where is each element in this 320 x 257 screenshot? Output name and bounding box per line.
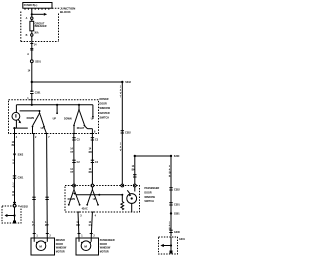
splice node S318 bbox=[31, 81, 33, 83]
svg-text:DRIVER: DRIVER bbox=[56, 239, 65, 242]
connector bump above breaker bbox=[31, 17, 33, 19]
gauge label pass ground bbox=[132, 165, 136, 171]
svg-text:DOOR: DOOR bbox=[56, 243, 63, 246]
circuit breaker body bbox=[30, 19, 34, 30]
svg-text:DOOR: DOOR bbox=[100, 103, 107, 106]
switch bus wire bbox=[16, 105, 93, 116]
connector label C302 bbox=[125, 131, 131, 134]
connector ticks right ground 1 bbox=[169, 188, 172, 190]
junction block exit pin label bbox=[34, 44, 37, 47]
connector C301 ticks bbox=[30, 91, 33, 93]
driver motor box bbox=[31, 238, 55, 255]
pin tick at block exit bbox=[30, 43, 33, 45]
junction block label bbox=[60, 7, 75, 15]
pass switch bottom pins bbox=[77, 211, 95, 213]
ground node right bbox=[170, 155, 172, 157]
passenger motor symbol bbox=[79, 238, 91, 251]
driver master switch dashed box bbox=[9, 100, 99, 134]
gauge label right ground bbox=[169, 165, 171, 178]
breaker ground stub bbox=[14, 120, 27, 128]
svg-text:GY: GY bbox=[89, 224, 93, 227]
connector ticks right ground 3 bbox=[169, 230, 172, 232]
svg-text:30A: 30A bbox=[34, 32, 39, 35]
node label S300 bbox=[174, 155, 180, 158]
gauge label right ground 2 bbox=[169, 222, 171, 231]
splice S302 label bbox=[18, 153, 24, 156]
inline connector label bbox=[35, 61, 41, 64]
ground box label right bbox=[179, 238, 186, 241]
svg-text:RD: RD bbox=[89, 151, 93, 154]
svg-text:WINDOW: WINDOW bbox=[56, 247, 67, 250]
pass motor pin labels bbox=[81, 234, 95, 237]
svg-text:UP: UP bbox=[53, 118, 57, 121]
svg-text:VT: VT bbox=[70, 171, 74, 174]
svg-text:DOOR: DOOR bbox=[100, 243, 107, 246]
svg-text:WINDOW: WINDOW bbox=[100, 107, 111, 110]
svg-text:B: B bbox=[26, 34, 28, 37]
lamp resistor element bbox=[121, 195, 124, 210]
motor wire labels bbox=[32, 221, 49, 227]
connector label right 2 bbox=[174, 203, 180, 206]
svg-text:C302: C302 bbox=[174, 188, 180, 191]
bus node feed bbox=[31, 104, 33, 106]
wire gauge label 2 on S318 drop bbox=[120, 143, 122, 153]
pin label 4 bbox=[16, 136, 18, 139]
ground node passenger bbox=[134, 155, 136, 157]
svg-text:SWITCH: SWITCH bbox=[144, 200, 154, 203]
internal link wire bbox=[76, 194, 123, 196]
svg-text:DRIVER: DRIVER bbox=[100, 98, 109, 101]
passenger motor box bbox=[76, 238, 99, 255]
breaker output wire bbox=[20, 110, 40, 112]
svg-text:BK: BK bbox=[12, 144, 16, 147]
svg-text:MASTER: MASTER bbox=[100, 112, 110, 115]
pass switch right rocker bbox=[86, 187, 99, 206]
ground strap bbox=[5, 207, 16, 221]
connector labels pass mid bbox=[77, 161, 99, 164]
pin digits bbox=[35, 130, 96, 139]
driver motor symbol bbox=[34, 238, 47, 251]
wire below splice bbox=[14, 154, 16, 204]
connector ticks pass wires mid bbox=[72, 160, 94, 162]
pin label B bbox=[26, 34, 28, 37]
branch wire to passenger side bbox=[32, 81, 123, 83]
svg-text:BR: BR bbox=[76, 224, 80, 227]
pass motor wire labels bbox=[76, 221, 92, 227]
passenger motor label bbox=[100, 239, 115, 253]
pass wire gauge labels 2 bbox=[70, 168, 92, 174]
driver motor label bbox=[56, 239, 67, 253]
pin label above ground box bbox=[12, 183, 14, 198]
connector ticks pass ground bbox=[133, 175, 136, 177]
driver motor wire up bbox=[46, 134, 49, 239]
pass motor pin ticks bbox=[78, 233, 93, 235]
svg-text:K: K bbox=[12, 194, 14, 197]
wire gauge label S318 drop bbox=[120, 86, 122, 99]
ground branch horizontal bbox=[135, 155, 171, 157]
motor pin ticks bbox=[33, 233, 49, 235]
label DOWN 2 bbox=[64, 118, 72, 121]
svg-text:SWITCH: SWITCH bbox=[100, 116, 110, 119]
connector C301 ticks on ground wire bbox=[13, 176, 16, 178]
connector ticks motor wires bbox=[32, 197, 49, 199]
contact on bus end bbox=[92, 116, 94, 118]
pass switch left rocker bbox=[68, 187, 81, 206]
svg-text:A: A bbox=[27, 53, 29, 56]
pass motor wire up bbox=[91, 212, 92, 238]
connector ticks on S318 drop bbox=[121, 131, 124, 133]
connector C301 label bbox=[35, 92, 41, 95]
driver motor M bbox=[39, 244, 42, 248]
svg-text:BREAKER: BREAKER bbox=[35, 25, 47, 28]
splice node right ground bbox=[170, 212, 172, 214]
wire gauge label 2 bbox=[12, 159, 14, 165]
svg-text:DOWN: DOWN bbox=[27, 117, 35, 120]
ground terminal bbox=[13, 221, 16, 224]
wire below junction block bbox=[31, 36, 33, 60]
svg-text:FUSED B(+): FUSED B(+) bbox=[24, 4, 38, 7]
svg-text:UP: UP bbox=[93, 198, 97, 201]
pass motor wire down bbox=[78, 212, 79, 238]
svg-text:WT: WT bbox=[45, 224, 49, 227]
splice S302 bbox=[13, 153, 15, 155]
label UP pass bbox=[93, 198, 97, 201]
ground wire from switch bbox=[14, 128, 16, 153]
label center pass bbox=[82, 208, 88, 211]
svg-text:S302: S302 bbox=[18, 153, 24, 156]
label UP 2 bbox=[53, 118, 57, 121]
right ground wire bbox=[170, 156, 172, 237]
driver motor wire down bbox=[33, 134, 36, 239]
passenger feed from S318 bbox=[121, 82, 123, 184]
passenger control rocker bbox=[73, 105, 92, 134]
right ground dashed box bbox=[159, 237, 178, 254]
svg-text:S318: S318 bbox=[125, 81, 131, 84]
wire gauge label bbox=[27, 53, 31, 73]
splice label right bbox=[174, 213, 180, 216]
svg-text:S301: S301 bbox=[174, 213, 180, 216]
ground path inside box bbox=[13, 127, 15, 129]
passenger motor M bbox=[84, 244, 87, 248]
node on feed wire bbox=[31, 13, 33, 15]
label UP bbox=[41, 127, 45, 130]
svg-text:DOWN: DOWN bbox=[64, 118, 72, 121]
master switch bottom pins bbox=[13, 133, 94, 135]
node S318 right bbox=[121, 81, 123, 83]
svg-text:WINDOW: WINDOW bbox=[144, 196, 155, 199]
passenger ground wire bbox=[134, 156, 136, 184]
bus node 2 bbox=[56, 104, 58, 106]
master switch feed pin tick bbox=[30, 99, 33, 101]
svg-text:MOTOR: MOTOR bbox=[56, 250, 65, 253]
svg-text:RIGHT: RIGHT bbox=[77, 127, 85, 130]
svg-text:PASSENGER: PASSENGER bbox=[100, 239, 115, 242]
label DOWN bbox=[27, 117, 35, 120]
connector label bbox=[18, 177, 24, 180]
entry connector bumps bbox=[73, 184, 137, 187]
svg-text:S201: S201 bbox=[35, 61, 41, 64]
svg-text:PASSENGER: PASSENGER bbox=[144, 187, 159, 190]
svg-text:WINDOW: WINDOW bbox=[100, 247, 111, 250]
svg-text:K: K bbox=[169, 175, 171, 178]
label window bbox=[77, 127, 85, 130]
svg-text:YL: YL bbox=[32, 224, 36, 227]
ground wire gauge bbox=[12, 141, 16, 147]
passenger switch dashed box bbox=[65, 186, 140, 213]
inline connector on feed wire bbox=[30, 49, 33, 63]
svg-text:C301: C301 bbox=[174, 203, 180, 206]
driver window switch contacts bbox=[32, 110, 47, 134]
driver ground dashed box bbox=[2, 206, 21, 223]
passenger switch label bbox=[144, 187, 159, 203]
svg-text:G302: G302 bbox=[22, 205, 29, 208]
circuit breaker label bbox=[35, 22, 47, 28]
connector label right 3 bbox=[174, 231, 181, 234]
connector ticks right ground 2 bbox=[169, 203, 172, 205]
master switch feed pin label bbox=[27, 97, 29, 100]
ground box label bbox=[22, 205, 29, 208]
svg-text:G300: G300 bbox=[174, 231, 181, 234]
ground strap right bbox=[160, 237, 172, 251]
connector ticks pass wires top bbox=[72, 138, 94, 140]
pass wire gauge labels bbox=[70, 148, 92, 154]
pass breaker circle bbox=[127, 187, 137, 212]
svg-text:DOWN: DOWN bbox=[68, 198, 76, 201]
svg-text:G301: G301 bbox=[179, 238, 186, 241]
svg-text:BLOCK: BLOCK bbox=[60, 10, 71, 14]
svg-text:UP: UP bbox=[91, 118, 95, 121]
feed wire from fuse block bbox=[31, 8, 33, 17]
pin label A bbox=[26, 17, 28, 20]
entry connector bump bbox=[13, 204, 16, 207]
svg-text:A: A bbox=[26, 17, 28, 20]
wire into master switch bbox=[31, 94, 33, 105]
fuse block header box bbox=[23, 3, 52, 10]
svg-text:RD: RD bbox=[89, 171, 93, 174]
svg-text:C302: C302 bbox=[125, 131, 131, 134]
label DOWN pass bbox=[68, 198, 76, 201]
label UP 3 bbox=[91, 118, 95, 121]
passenger feed wire left bbox=[73, 134, 75, 185]
svg-text:42AC: 42AC bbox=[82, 208, 88, 211]
node label S318 bbox=[125, 81, 131, 84]
breaker amp label bbox=[34, 32, 39, 35]
master switch label bbox=[100, 98, 111, 119]
passenger feed wire right bbox=[91, 134, 93, 185]
connector label right 1 bbox=[174, 188, 180, 191]
branch arrow to other circuits bbox=[32, 13, 47, 16]
circuit breaker in switch bbox=[12, 112, 21, 123]
connector labels pass wires bbox=[77, 138, 99, 141]
svg-text:VT: VT bbox=[70, 151, 74, 154]
connector bump below breaker bbox=[31, 31, 33, 36]
header box text bbox=[24, 4, 38, 7]
svg-text:BK: BK bbox=[132, 168, 136, 171]
motor pin labels bbox=[36, 234, 51, 237]
passenger control contact left bbox=[56, 105, 58, 114]
svg-text:MOTOR: MOTOR bbox=[100, 250, 109, 253]
bus node 3 bbox=[78, 104, 80, 106]
svg-text:C301: C301 bbox=[35, 92, 41, 95]
svg-text:C301: C301 bbox=[18, 177, 24, 180]
svg-text:S300: S300 bbox=[174, 155, 180, 158]
svg-text:UP: UP bbox=[41, 127, 45, 130]
svg-text:DOOR: DOOR bbox=[144, 192, 151, 195]
ground terminal right bbox=[170, 251, 173, 254]
wire to splice bbox=[31, 63, 33, 92]
junction block dashed border bbox=[21, 8, 60, 41]
